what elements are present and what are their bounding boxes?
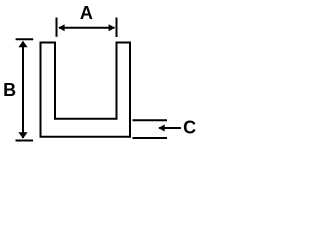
dimension A left extension tick [56,18,58,37]
dimension A left arrowhead [58,24,64,31]
dimension C bottom extension line [133,137,168,139]
U-channel outline [41,43,131,137]
dimension B top arrowhead [18,41,27,47]
svg-text:A: A [80,3,93,23]
svg-text:B: B [3,80,16,100]
dimension B arrow shaft [22,42,24,139]
svg-text:C: C [183,118,196,138]
dimension C arrowhead [158,125,164,132]
dimension B bottom extension tick [16,140,34,142]
dimension C arrow shaft [159,127,181,129]
dimension B bottom arrowhead [18,132,27,138]
dimension A arrow shaft [59,27,115,29]
dimension B top extension tick [16,38,34,40]
dimension C top extension line [133,119,168,121]
dimension A right arrowhead [109,24,115,31]
dimension A right extension tick [116,18,118,38]
